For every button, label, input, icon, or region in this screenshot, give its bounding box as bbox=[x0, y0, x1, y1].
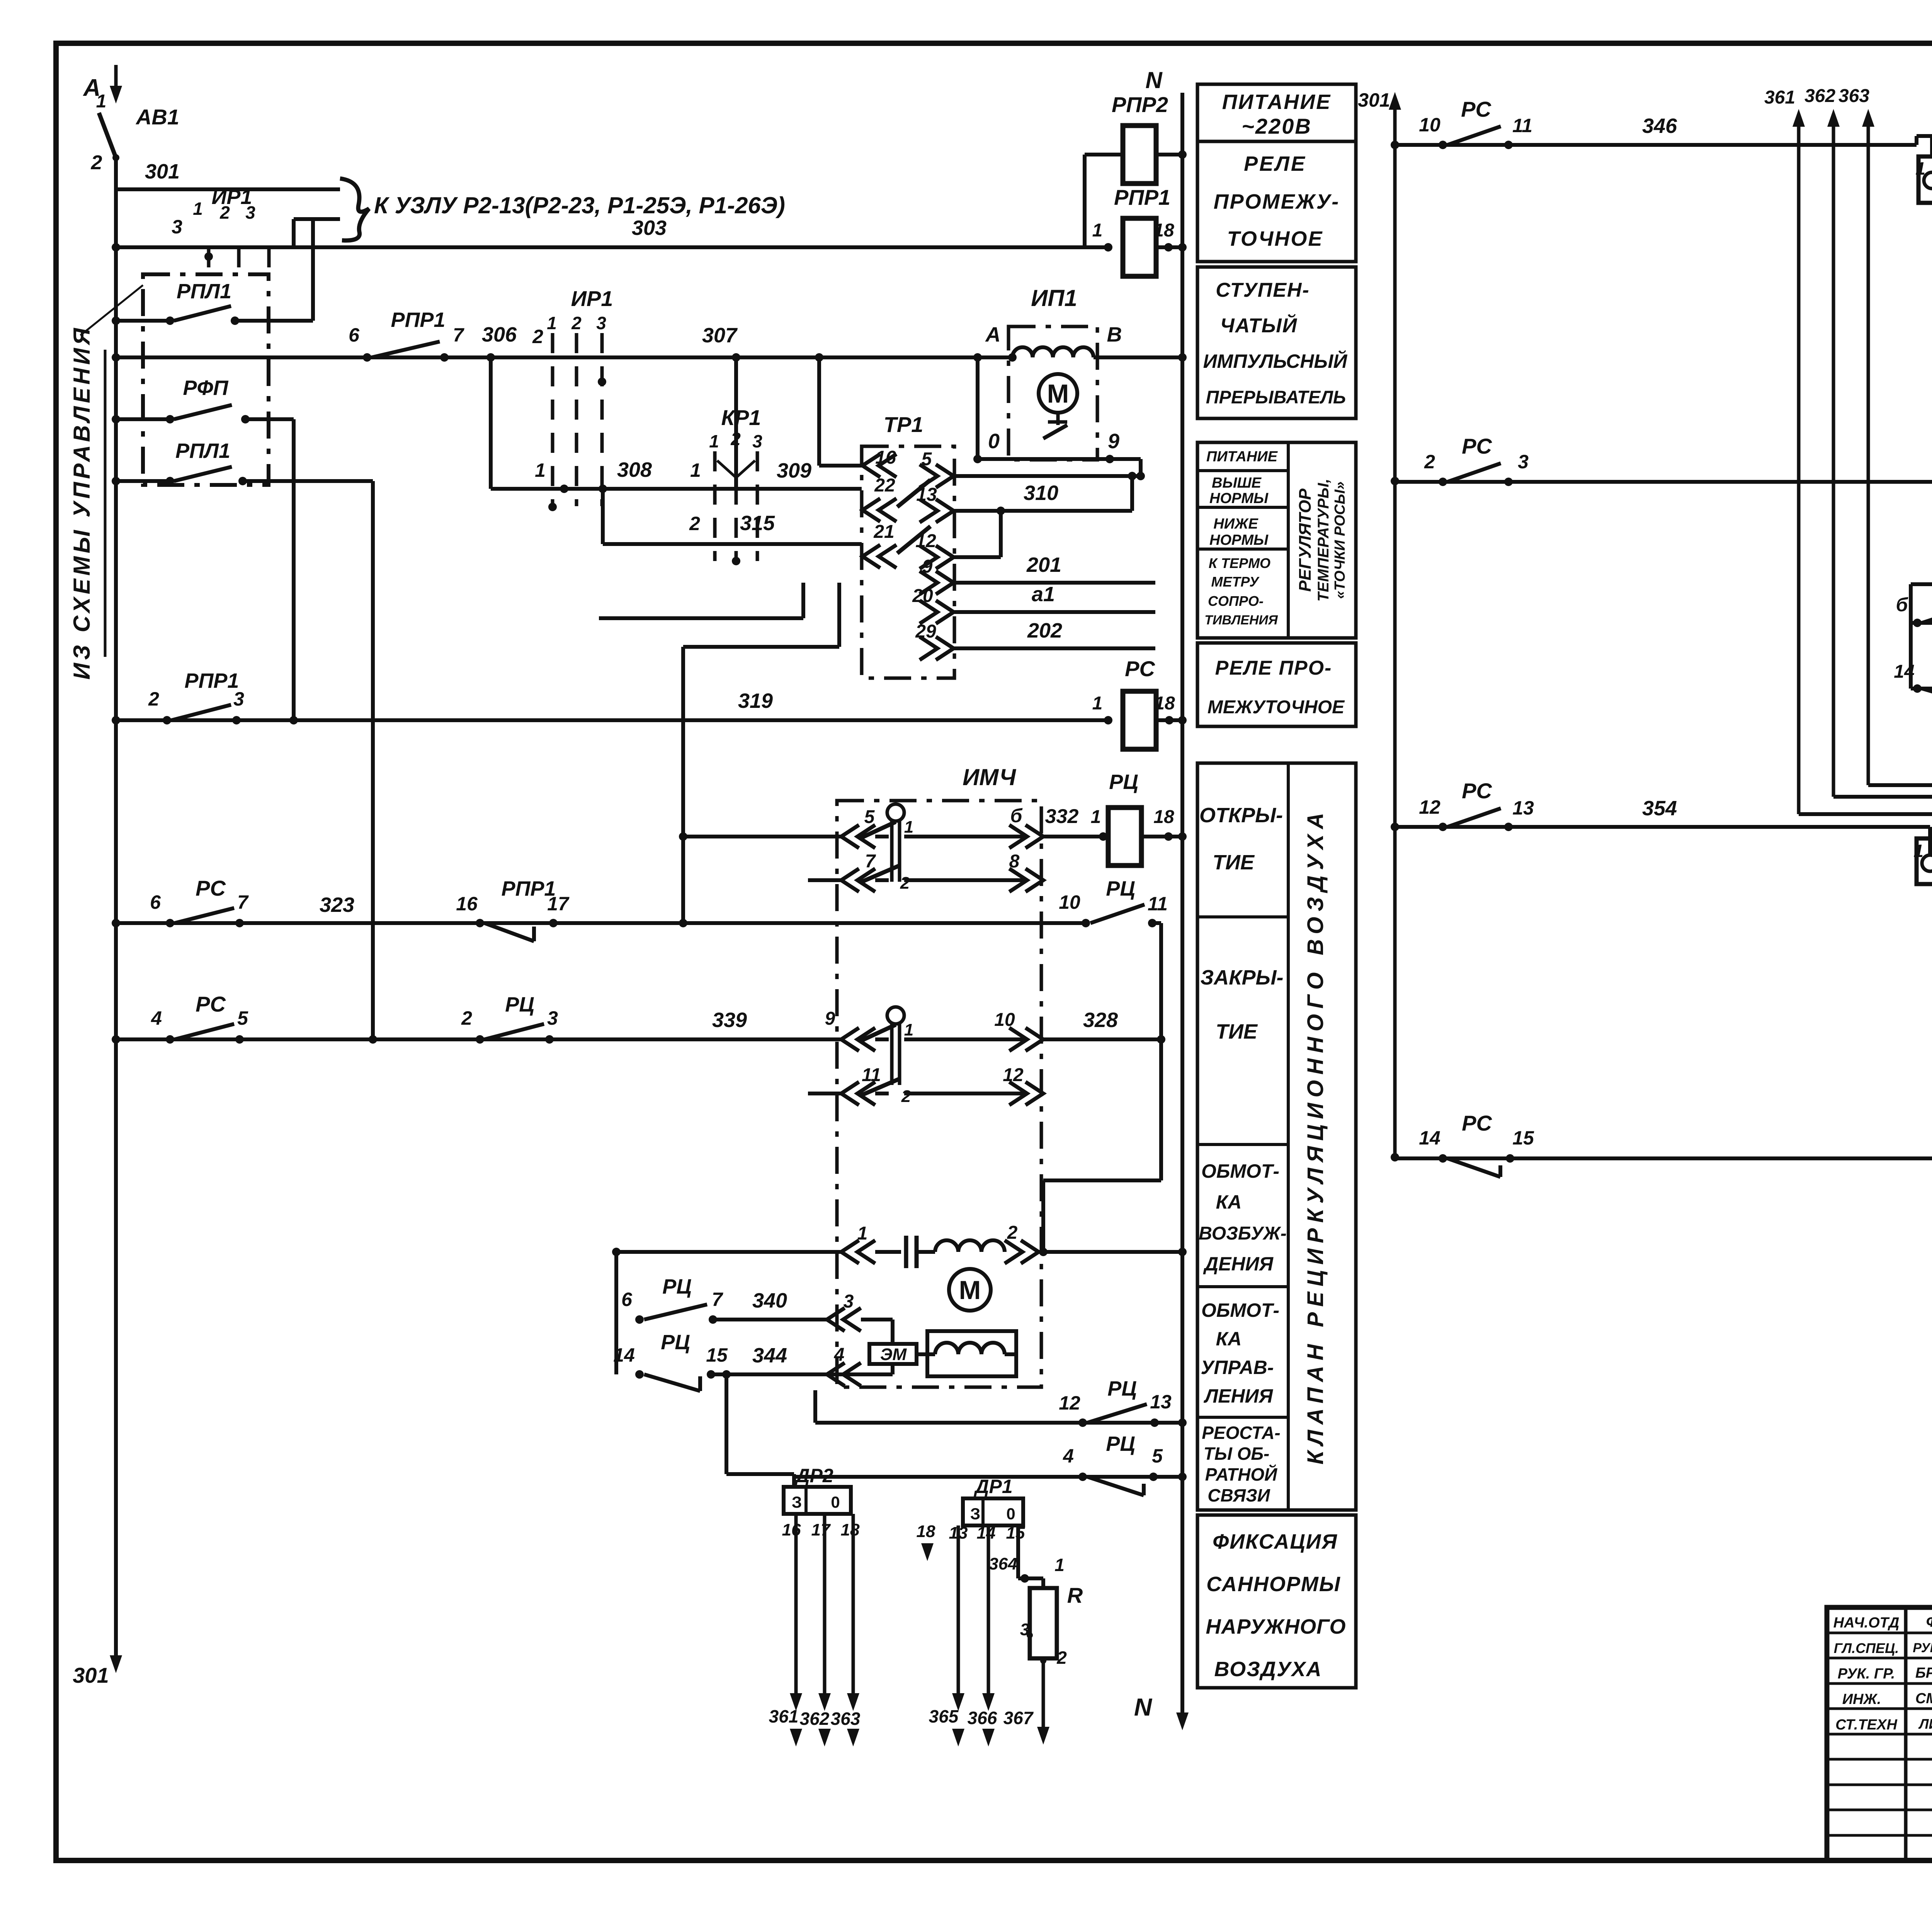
svg-text:0: 0 bbox=[1006, 1505, 1015, 1523]
svg-text:2: 2 bbox=[730, 429, 741, 449]
svg-text:1: 1 bbox=[904, 818, 913, 837]
svg-text:ПРОМЕЖУ-: ПРОМЕЖУ- bbox=[1214, 190, 1340, 213]
svg-text:МЕТРУ: МЕТРУ bbox=[1211, 574, 1260, 590]
svg-text:СОПРО-: СОПРО- bbox=[1208, 593, 1264, 609]
svg-text:ЛЕНИЯ: ЛЕНИЯ bbox=[1204, 1385, 1274, 1407]
svg-text:9: 9 bbox=[825, 1008, 835, 1029]
svg-text:309: 309 bbox=[777, 459, 811, 482]
svg-text:ДР1: ДР1 bbox=[973, 1476, 1012, 1497]
svg-text:ИНЖ.: ИНЖ. bbox=[1842, 1691, 1881, 1707]
svg-text:17: 17 bbox=[811, 1520, 831, 1539]
svg-text:363: 363 bbox=[831, 1709, 861, 1729]
svg-text:367: 367 bbox=[1003, 1708, 1034, 1728]
svg-text:2: 2 bbox=[689, 513, 700, 534]
svg-text:366: 366 bbox=[968, 1708, 997, 1728]
svg-text:ПРЕРЫВАТЕЛЬ: ПРЕРЫВАТЕЛЬ bbox=[1206, 387, 1346, 407]
svg-text:10: 10 bbox=[994, 1010, 1015, 1030]
svg-text:344: 344 bbox=[752, 1344, 787, 1367]
svg-text:2: 2 bbox=[900, 874, 910, 893]
svg-text:ПИТАНИЕ: ПИТАНИЕ bbox=[1222, 90, 1331, 114]
svg-text:22: 22 bbox=[874, 475, 895, 496]
svg-text:1: 1 bbox=[1913, 841, 1923, 861]
svg-text:ОБМОТ-: ОБМОТ- bbox=[1201, 1160, 1279, 1182]
svg-text:354: 354 bbox=[1642, 797, 1677, 820]
svg-text:301: 301 bbox=[1358, 89, 1390, 111]
svg-text:14: 14 bbox=[613, 1344, 635, 1366]
svg-text:339: 339 bbox=[712, 1008, 747, 1032]
svg-text:361: 361 bbox=[1764, 87, 1795, 108]
svg-text:308: 308 bbox=[617, 458, 652, 481]
svg-text:«ТОЧКИ РОСЫ»: «ТОЧКИ РОСЫ» bbox=[1332, 481, 1348, 599]
svg-text:ИР1: ИР1 bbox=[571, 286, 613, 311]
svg-text:2: 2 bbox=[1056, 1648, 1067, 1668]
svg-text:РУБЧИНСКИЙ: РУБЧИНСКИЙ bbox=[1913, 1640, 1932, 1655]
svg-text:~220В: ~220В bbox=[1242, 114, 1312, 138]
svg-text:9: 9 bbox=[1108, 430, 1119, 453]
svg-text:3: 3 bbox=[245, 202, 255, 223]
svg-text:3: 3 bbox=[1518, 451, 1529, 473]
svg-text:ОБМОТ-: ОБМОТ- bbox=[1201, 1299, 1279, 1321]
svg-text:1: 1 bbox=[535, 459, 546, 481]
svg-text:ДЕНИЯ: ДЕНИЯ bbox=[1203, 1253, 1274, 1275]
svg-text:РЕОСТА-: РЕОСТА- bbox=[1202, 1423, 1281, 1443]
svg-text:301: 301 bbox=[73, 1663, 109, 1687]
svg-text:5: 5 bbox=[864, 807, 875, 827]
svg-text:10: 10 bbox=[1059, 891, 1080, 913]
svg-text:В: В bbox=[1107, 323, 1122, 346]
svg-text:ТИЕ: ТИЕ bbox=[1213, 851, 1255, 874]
svg-text:7: 7 bbox=[865, 851, 876, 872]
svg-text:ИП1: ИП1 bbox=[1031, 285, 1077, 311]
svg-text:0: 0 bbox=[831, 1493, 840, 1511]
svg-text:323: 323 bbox=[320, 893, 354, 917]
svg-text:16: 16 bbox=[875, 447, 896, 468]
svg-text:16: 16 bbox=[782, 1520, 801, 1539]
svg-text:А: А bbox=[985, 323, 1001, 346]
svg-text:ТИВЛЕНИЯ: ТИВЛЕНИЯ bbox=[1204, 613, 1278, 627]
svg-text:АВ1: АВ1 bbox=[135, 105, 179, 129]
svg-text:БРОНШТЕЙ: БРОНШТЕЙ bbox=[1915, 1664, 1932, 1681]
svg-text:б: б bbox=[1896, 594, 1909, 616]
svg-text:ИМПУЛЬСНЫЙ: ИМПУЛЬСНЫЙ bbox=[1203, 350, 1348, 372]
svg-text:ИМЧ: ИМЧ bbox=[963, 764, 1016, 790]
svg-text:363: 363 bbox=[1838, 86, 1869, 106]
svg-text:2: 2 bbox=[461, 1007, 472, 1029]
svg-text:МЕЖУТОЧНОЕ: МЕЖУТОЧНОЕ bbox=[1207, 697, 1345, 718]
svg-text:18: 18 bbox=[1153, 220, 1174, 241]
svg-text:М: М bbox=[1047, 379, 1069, 408]
svg-text:ПИТАНИЕ: ПИТАНИЕ bbox=[1206, 449, 1278, 465]
svg-text:310: 310 bbox=[1024, 481, 1058, 505]
svg-text:РС: РС bbox=[1462, 779, 1492, 803]
svg-text:11: 11 bbox=[1148, 893, 1168, 915]
svg-text:2: 2 bbox=[901, 1087, 911, 1106]
svg-text:306: 306 bbox=[482, 323, 517, 346]
svg-text:СМИРНОВА: СМИРНОВА bbox=[1915, 1690, 1932, 1707]
svg-text:РЕГУЛЯТОР: РЕГУЛЯТОР bbox=[1296, 488, 1315, 592]
svg-text:РФП: РФП bbox=[183, 376, 228, 400]
svg-text:3: 3 bbox=[172, 216, 182, 238]
svg-text:ФИКСАЦИЯ: ФИКСАЦИЯ bbox=[1213, 1530, 1338, 1553]
svg-text:4: 4 bbox=[151, 1007, 162, 1029]
svg-text:ФИНГЕР: ФИНГЕР bbox=[1926, 1613, 1932, 1630]
svg-text:РС: РС bbox=[196, 992, 226, 1016]
svg-text:328: 328 bbox=[1083, 1008, 1118, 1032]
svg-text:ТИЕ: ТИЕ bbox=[1216, 1020, 1258, 1043]
svg-text:РЦ: РЦ bbox=[661, 1331, 690, 1354]
svg-text:1: 1 bbox=[1091, 807, 1101, 827]
svg-text:6: 6 bbox=[349, 324, 360, 346]
svg-text:12: 12 bbox=[1059, 1392, 1080, 1414]
svg-text:3: 3 bbox=[233, 688, 244, 710]
svg-text:К УЗЛУ Р2-13(Р2-23, Р1-25Э, Р1: К УЗЛУ Р2-13(Р2-23, Р1-25Э, Р1-26Э) bbox=[374, 192, 785, 218]
svg-text:1: 1 bbox=[547, 313, 557, 333]
svg-text:18: 18 bbox=[1154, 693, 1175, 714]
svg-text:8: 8 bbox=[1009, 851, 1020, 872]
svg-text:362: 362 bbox=[1804, 86, 1835, 106]
svg-text:1: 1 bbox=[709, 431, 719, 451]
svg-text:РЕЛЕ ПРО-: РЕЛЕ ПРО- bbox=[1215, 657, 1332, 679]
svg-text:З: З bbox=[970, 1505, 980, 1523]
svg-text:СТ.ТЕХН: СТ.ТЕХН bbox=[1835, 1717, 1898, 1733]
svg-text:362: 362 bbox=[800, 1709, 830, 1729]
svg-text:1: 1 bbox=[904, 1020, 913, 1039]
svg-text:18: 18 bbox=[917, 1522, 935, 1541]
svg-text:НОРМЫ: НОРМЫ bbox=[1209, 490, 1269, 507]
svg-text:201: 201 bbox=[1026, 553, 1061, 576]
svg-text:1: 1 bbox=[1054, 1555, 1065, 1575]
svg-text:2: 2 bbox=[571, 313, 582, 333]
svg-text:РПЛ1: РПЛ1 bbox=[175, 439, 230, 463]
svg-text:202: 202 bbox=[1027, 619, 1062, 642]
svg-text:21: 21 bbox=[873, 522, 894, 542]
svg-text:10: 10 bbox=[1419, 114, 1440, 136]
svg-text:ГЛ.СПЕЦ.: ГЛ.СПЕЦ. bbox=[1834, 1640, 1899, 1656]
svg-text:12: 12 bbox=[1003, 1065, 1024, 1085]
svg-text:РЦ: РЦ bbox=[1109, 770, 1138, 794]
svg-text:б: б bbox=[1010, 805, 1023, 826]
svg-text:РЦ: РЦ bbox=[1107, 1377, 1136, 1400]
svg-text:7: 7 bbox=[712, 1289, 723, 1310]
svg-text:301: 301 bbox=[145, 160, 180, 183]
svg-text:РЕЛЕ: РЕЛЕ bbox=[1244, 152, 1306, 175]
svg-text:ВОЗБУЖ-: ВОЗБУЖ- bbox=[1199, 1223, 1286, 1244]
svg-text:7: 7 bbox=[237, 891, 249, 913]
svg-text:5: 5 bbox=[1152, 1445, 1163, 1467]
svg-text:РС: РС bbox=[1125, 656, 1155, 681]
svg-text:ДР2: ДР2 bbox=[794, 1465, 833, 1486]
svg-text:ЭМ: ЭМ bbox=[880, 1345, 907, 1364]
svg-text:К ТЕРМО: К ТЕРМО bbox=[1209, 555, 1270, 571]
svg-text:365: 365 bbox=[929, 1706, 959, 1726]
svg-text:6: 6 bbox=[150, 891, 161, 913]
svg-text:РС: РС bbox=[1462, 434, 1492, 458]
svg-text:ЛИСИКИНА: ЛИСИКИНА bbox=[1918, 1716, 1932, 1732]
svg-text:18: 18 bbox=[841, 1520, 860, 1539]
svg-text:УПРАВ-: УПРАВ- bbox=[1201, 1357, 1274, 1378]
svg-text:а1: а1 bbox=[1032, 583, 1055, 606]
svg-text:ОТКРЫ-: ОТКРЫ- bbox=[1199, 804, 1283, 827]
svg-text:РС: РС bbox=[196, 876, 226, 900]
svg-text:ВОЗДУХА: ВОЗДУХА bbox=[1214, 1658, 1322, 1681]
svg-text:РЦ: РЦ bbox=[1106, 1432, 1135, 1456]
svg-text:364: 364 bbox=[989, 1554, 1017, 1573]
svg-text:КР1: КР1 bbox=[721, 405, 761, 430]
svg-text:4: 4 bbox=[834, 1345, 845, 1365]
svg-text:346: 346 bbox=[1642, 114, 1677, 138]
svg-text:307: 307 bbox=[702, 324, 738, 347]
svg-text:11: 11 bbox=[1512, 115, 1532, 136]
svg-text:КА: КА bbox=[1216, 1328, 1242, 1350]
svg-text:303: 303 bbox=[632, 216, 667, 240]
svg-text:15: 15 bbox=[1006, 1524, 1025, 1542]
svg-text:НИЖЕ: НИЖЕ bbox=[1213, 516, 1259, 532]
svg-text:РЦ: РЦ bbox=[1106, 877, 1135, 900]
svg-text:17: 17 bbox=[547, 893, 570, 915]
svg-text:1: 1 bbox=[193, 199, 203, 219]
svg-text:5: 5 bbox=[237, 1007, 248, 1029]
svg-text:1: 1 bbox=[1915, 158, 1925, 179]
svg-text:0: 0 bbox=[988, 430, 1000, 453]
svg-text:12: 12 bbox=[1419, 796, 1440, 818]
svg-text:15: 15 bbox=[706, 1344, 728, 1366]
svg-text:14: 14 bbox=[1894, 662, 1914, 682]
svg-text:361: 361 bbox=[769, 1706, 799, 1726]
svg-text:ЗАКРЫ-: ЗАКРЫ- bbox=[1201, 966, 1284, 989]
svg-text:332: 332 bbox=[1045, 805, 1079, 828]
svg-text:РПР1: РПР1 bbox=[1114, 185, 1170, 209]
svg-text:15: 15 bbox=[1512, 1127, 1534, 1149]
svg-text:З: З bbox=[792, 1493, 802, 1511]
svg-text:НОРМЫ: НОРМЫ bbox=[1209, 532, 1269, 548]
svg-text:3: 3 bbox=[596, 313, 606, 333]
svg-text:ИЗ СХЕМЫ УПРАВЛЕНИЯ: ИЗ СХЕМЫ УПРАВЛЕНИЯ bbox=[69, 325, 95, 680]
svg-text:2: 2 bbox=[1007, 1223, 1018, 1243]
svg-text:340: 340 bbox=[752, 1289, 787, 1312]
svg-text:N: N bbox=[1134, 1693, 1153, 1721]
svg-text:319: 319 bbox=[738, 689, 773, 713]
svg-text:3: 3 bbox=[844, 1291, 854, 1312]
svg-text:2: 2 bbox=[532, 326, 543, 347]
svg-text:РЦ: РЦ bbox=[505, 993, 534, 1016]
svg-text:3: 3 bbox=[547, 1007, 558, 1029]
svg-text:1: 1 bbox=[690, 459, 701, 481]
svg-text:16: 16 bbox=[456, 893, 478, 915]
svg-text:ВЫШЕ: ВЫШЕ bbox=[1212, 475, 1262, 491]
svg-text:4: 4 bbox=[1063, 1445, 1074, 1467]
svg-text:ЧАТЫЙ: ЧАТЫЙ bbox=[1220, 314, 1298, 337]
svg-text:КЛАПАН РЕЦИРКУЛЯЦИОННОГО ВОЗДУ: КЛАПАН РЕЦИРКУЛЯЦИОННОГО ВОЗДУХА bbox=[1303, 808, 1328, 1465]
svg-text:1: 1 bbox=[96, 91, 107, 112]
svg-text:РПЛ1: РПЛ1 bbox=[177, 280, 231, 303]
svg-text:ТОЧНОЕ: ТОЧНОЕ bbox=[1227, 227, 1323, 250]
svg-text:6: 6 bbox=[621, 1289, 633, 1310]
svg-text:РПР1: РПР1 bbox=[391, 308, 446, 332]
svg-text:R: R bbox=[1067, 1583, 1083, 1607]
svg-text:11: 11 bbox=[862, 1065, 881, 1085]
svg-text:ТЕМПЕРАТУРЫ,: ТЕМПЕРАТУРЫ, bbox=[1315, 479, 1332, 602]
svg-text:1: 1 bbox=[1092, 220, 1103, 241]
svg-text:НАЧ.ОТД: НАЧ.ОТД bbox=[1833, 1615, 1900, 1631]
svg-text:14: 14 bbox=[977, 1524, 996, 1542]
svg-text:РС: РС bbox=[1462, 1111, 1492, 1135]
svg-text:7: 7 bbox=[453, 324, 464, 346]
svg-text:13: 13 bbox=[1150, 1391, 1172, 1413]
svg-text:18: 18 bbox=[1153, 807, 1174, 827]
svg-text:РС: РС bbox=[1461, 97, 1492, 121]
svg-text:14: 14 bbox=[1419, 1127, 1440, 1149]
svg-text:М: М bbox=[959, 1275, 981, 1305]
svg-text:2: 2 bbox=[219, 202, 230, 223]
svg-text:РЦ: РЦ bbox=[662, 1275, 691, 1298]
svg-text:СТУПЕН-: СТУПЕН- bbox=[1216, 279, 1310, 301]
svg-text:РПР1: РПР1 bbox=[185, 669, 239, 692]
svg-text:1: 1 bbox=[857, 1223, 868, 1244]
svg-text:3: 3 bbox=[752, 431, 762, 451]
svg-text:13: 13 bbox=[1512, 797, 1534, 819]
svg-text:ТЫ ОБ-: ТЫ ОБ- bbox=[1204, 1444, 1270, 1464]
svg-text:РПР2: РПР2 bbox=[1112, 92, 1168, 117]
svg-text:1: 1 bbox=[1092, 693, 1103, 714]
svg-text:2: 2 bbox=[148, 688, 159, 710]
svg-text:НАРУЖНОГО: НАРУЖНОГО bbox=[1206, 1615, 1346, 1638]
svg-text:РУК. ГР.: РУК. ГР. bbox=[1838, 1666, 1895, 1682]
svg-text:2: 2 bbox=[1424, 451, 1435, 473]
svg-text:ТР1: ТР1 bbox=[884, 412, 923, 437]
svg-text:СВЯЗИ: СВЯЗИ bbox=[1207, 1485, 1270, 1505]
svg-text:N: N bbox=[1145, 67, 1163, 93]
svg-text:2: 2 bbox=[91, 151, 102, 174]
svg-text:РАТНОЙ: РАТНОЙ bbox=[1205, 1464, 1277, 1485]
svg-text:САННОРМЫ: САННОРМЫ bbox=[1206, 1573, 1341, 1596]
svg-text:КА: КА bbox=[1216, 1191, 1242, 1213]
